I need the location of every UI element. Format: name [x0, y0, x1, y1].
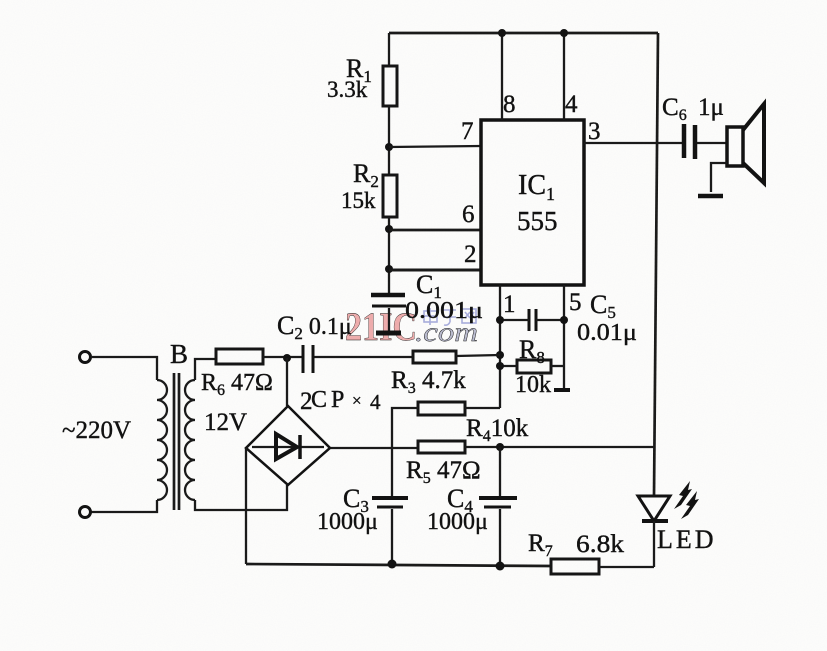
resistor R1 [383, 66, 397, 106]
resistor R2 [383, 175, 397, 217]
ground pin5 R8 [554, 388, 570, 392]
node junction pin1 C5 [496, 316, 504, 324]
capacitor C2 [302, 345, 305, 373]
wire C3 bottom lead [391, 509, 393, 565]
node junction pin5 C5 [560, 316, 568, 324]
resistor R4 [418, 402, 465, 415]
capacitor C5 [528, 309, 531, 331]
capacitor C1 [371, 293, 405, 298]
wire pin 8 [501, 33, 503, 120]
wire pin 7 [389, 146, 481, 147]
wire pin 1 vertical [499, 285, 501, 408]
wire C4 top lead [499, 447, 501, 496]
wire R1 top stub [388, 33, 390, 66]
node terminal input bottom [80, 507, 91, 518]
resistor R3 [413, 351, 456, 363]
capacitor C4 [479, 496, 517, 500]
wire bridge diode line [252, 446, 324, 448]
IC U1 IC1 555 body [481, 120, 584, 285]
paper noise [0, 0, 1, 1]
wire R7 right lead [599, 566, 654, 568]
wire C3 top lead [391, 448, 393, 496]
node junction pin2 [385, 265, 393, 273]
wire bridge output to R5 [330, 447, 418, 449]
wire R3 right lead [456, 355, 500, 356]
wire pin 2 [389, 269, 480, 272]
wire pin 5 vertical [563, 285, 565, 389]
node junction R3 pin1 [496, 351, 504, 359]
wire C6 to speaker [697, 142, 727, 144]
wire speaker ground hook [711, 163, 727, 192]
node junction pin4 top rail [560, 29, 568, 37]
wire R8 left lead [500, 365, 517, 367]
bridge rectifier diode triangle [276, 434, 297, 459]
speaker driver box [727, 127, 743, 166]
transformer core [173, 373, 176, 510]
LED D2 triangle [638, 496, 670, 521]
node junction R5 C4 [496, 443, 504, 451]
wire C4 bottom lead [499, 509, 501, 566]
node junction R1/R2/pin7 [385, 143, 393, 151]
ground C1 [376, 331, 401, 336]
wire R4 left lead down to C3 line [392, 408, 418, 448]
wire primary bottom to input bottom [91, 500, 157, 512]
bridge rectifier diode cathode bar [298, 435, 302, 459]
LED light arrow 1 [674, 481, 692, 509]
wire top supply rail [389, 32, 658, 35]
wire bridge left down to ground rail [245, 448, 247, 564]
transformer B secondary winding [185, 380, 195, 500]
LED light arrow 2 [681, 491, 699, 519]
wire pin 6 [389, 229, 481, 232]
node terminal input top [80, 352, 91, 363]
node junction C3 rail [388, 560, 397, 569]
ground speaker [698, 194, 723, 199]
node junction R8 pin1 [496, 362, 504, 370]
resistor R8 [517, 360, 551, 373]
wire ground rail bottom [246, 564, 551, 566]
wire pin 3 to C6 [584, 142, 684, 144]
capacitor C3 [372, 496, 408, 500]
node junction C2 bridge [283, 354, 291, 362]
wire LED cathode to R7 [653, 521, 655, 567]
resistor R7 [551, 559, 599, 574]
capacitor C6 [682, 124, 687, 158]
wire secondary top to R6 [195, 359, 216, 380]
watermark CJK glyph zi [443, 310, 456, 325]
wire R2 bottom down to C1 [388, 217, 390, 294]
speaker horn [743, 104, 764, 183]
wire R8 right lead [551, 365, 564, 367]
wire R4 right lead [465, 407, 500, 409]
resistor R5 [418, 441, 465, 453]
transformer B primary winding [157, 380, 167, 500]
wire right supply drop to LED [654, 33, 658, 496]
node junction pin6 [385, 225, 393, 233]
resistor R6 [216, 349, 263, 364]
wire C2 to R3 [313, 356, 413, 358]
wire pin 4 [563, 33, 565, 120]
bridge rectifier D1 2CP x4 diamond [246, 406, 330, 485]
node junction pin8 top rail [498, 29, 506, 37]
wire C5 right lead [536, 319, 564, 321]
wire C5 left lead [500, 319, 529, 321]
watermark CJK glyph dian [424, 308, 437, 325]
wire R1 bottom to R2 top [388, 106, 390, 175]
watermark CJK glyph wang [462, 309, 476, 323]
LED cathode bar [642, 519, 668, 523]
wire R5 right to LED rail [465, 446, 655, 448]
wire C1 bottom stub [388, 308, 390, 332]
node junction C4 rail [496, 562, 505, 571]
wire R6 to C2 [263, 356, 303, 358]
wire input top to primary [91, 357, 157, 380]
wire bridge top lead [286, 358, 288, 406]
wire secondary bottom to bridge [195, 485, 287, 510]
